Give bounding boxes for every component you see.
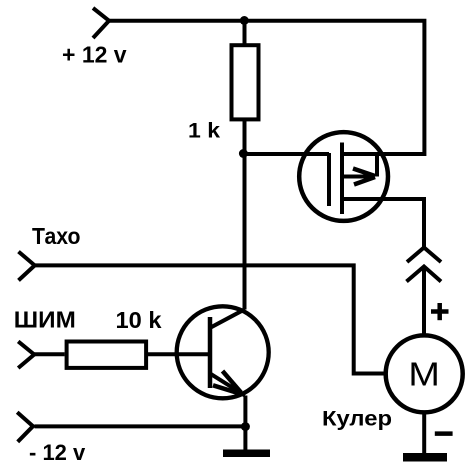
svg-text:ШИМ: ШИМ xyxy=(14,307,76,333)
svg-text:+ 12 v: + 12 v xyxy=(62,42,127,68)
svg-text:- 12 v: - 12 v xyxy=(29,440,86,465)
svg-text:Кулер: Кулер xyxy=(322,407,392,430)
svg-text:M: M xyxy=(408,355,440,392)
svg-text:1 k: 1 k xyxy=(188,119,220,142)
svg-text:Тахо: Тахо xyxy=(32,223,81,249)
svg-text:10 k: 10 k xyxy=(116,307,162,333)
